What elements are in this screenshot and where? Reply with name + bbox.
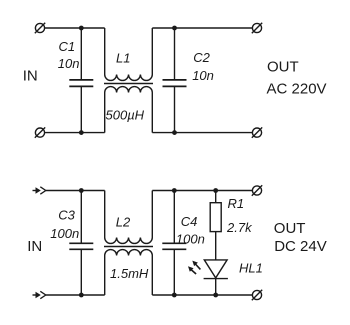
terminal bottom-left (AC in, neutral) [35,127,45,137]
LED HL1 [204,260,228,295]
node junction C4 top [172,188,177,193]
node junction C1 bottom [79,130,84,135]
node junction C3 top [79,188,84,193]
svg-text:R1: R1 [228,196,245,211]
connector plug top-left (DC in +) [33,187,46,194]
inductor L1 lower winding [105,87,153,133]
wire bottom rail left (DC) [46,294,105,296]
wire bottom rail right (AC) [152,132,252,134]
inductor L1 (common-mode choke) upper winding [105,28,153,80]
LED HL1 emission arrow 1 [192,261,200,270]
svg-text:C3: C3 [58,207,75,222]
svg-text:OUT: OUT [274,220,306,237]
svg-text:10n: 10n [192,68,214,83]
inductor L1 core [104,83,153,85]
resistor R1 [210,191,221,260]
node junction C2 bottom [172,130,177,135]
wire top rail left (AC) [45,27,105,29]
inductor L2 core [104,246,153,248]
terminal top-right (AC out, line) [252,23,262,33]
terminal top-left (AC in, line) [35,23,45,33]
node junction C3 bottom [79,293,84,298]
svg-text:HL1: HL1 [239,261,263,276]
svg-text:L2: L2 [116,214,131,229]
terminal bottom-right (AC out, neutral) [252,127,262,137]
svg-text:100n: 100n [176,232,205,247]
svg-text:2.7k: 2.7k [226,220,253,235]
inductor L2 (common-mode choke) upper winding [105,191,153,244]
svg-text:C4: C4 [181,214,198,229]
svg-text:1.5mH: 1.5mH [110,266,149,281]
node junction R1 top [213,188,218,193]
node junction C2 top [172,26,177,31]
terminal top-right (DC out +) [252,185,262,195]
svg-text:AC 220V: AC 220V [267,81,327,98]
wire top rail right (AC) [152,27,252,29]
wire bottom rail left (AC) [45,132,105,134]
wire top rail right (DC) [152,190,252,192]
svg-text:IN: IN [27,238,42,255]
svg-text:C2: C2 [193,50,210,65]
svg-text:IN: IN [23,67,38,84]
capacitor C1 [69,28,93,133]
capacitor C4 [162,191,186,296]
svg-text:100n: 100n [50,226,79,241]
connector plug bottom-left (DC in -) [33,291,46,298]
svg-text:DC 24V: DC 24V [274,238,327,255]
svg-text:C1: C1 [59,39,76,54]
node junction C4 bottom [172,293,177,298]
node junction HL1 bottom [213,293,218,298]
node junction C1 top [79,26,84,31]
capacitor C2 [163,28,187,133]
wire top rail left (DC) [46,190,105,192]
terminal bottom-right (DC out -) [252,290,262,300]
svg-text:10n: 10n [58,56,80,71]
capacitor C3 [69,191,93,296]
svg-text:L1: L1 [116,50,130,65]
LED HL1 emission arrow 2 [188,266,196,274]
inductor L2 lower winding [105,250,153,295]
svg-text:OUT: OUT [267,58,299,75]
svg-text:500µH: 500µH [106,108,145,123]
wire bottom rail right (DC) [152,294,252,296]
